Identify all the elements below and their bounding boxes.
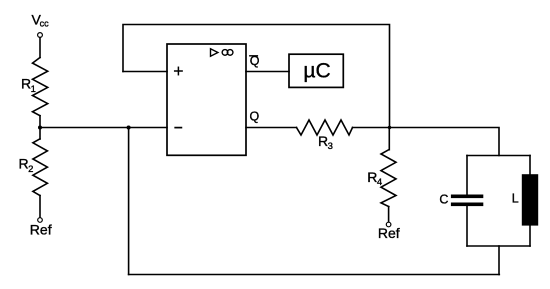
label C [439,193,448,207]
pin Qbar label [250,54,260,68]
wire junction down to bottom rail [128,128,130,275]
label R1 [21,76,36,96]
wire Vcc to R1 [39,38,41,58]
node bottom-rail junction [127,126,131,130]
svg-text:2: 2 [28,164,33,175]
svg-text:µC: µC [303,59,330,82]
resistor R3 [297,120,353,135]
svg-text:R: R [19,156,29,172]
svg-text:1: 1 [31,84,36,95]
pin + non-inverting input [175,67,182,74]
wire to non-inverting input [123,71,167,73]
svg-text:cc: cc [40,19,50,29]
svg-text:R: R [318,133,328,149]
wire tank right branch upper [529,156,531,175]
wire R2 to Ref [39,196,41,218]
resistor R2 [33,139,48,196]
node Ref terminal left [38,218,43,223]
wire node to tank top [390,128,500,156]
symbol infinity [222,50,233,56]
svg-text:Ref: Ref [30,222,52,238]
resistor R4 [381,150,396,207]
svg-text:Ref: Ref [378,225,400,241]
svg-text:C: C [439,193,448,207]
wire R4 to Ref [388,207,390,223]
pin - inverting input [175,127,181,129]
microcontroller U2 box [289,54,343,87]
svg-text:L: L [512,192,519,206]
label Ref right [378,225,400,241]
wire feedback top rail [123,25,390,128]
label uC [303,59,330,82]
label R2 [19,156,34,176]
node R3 R4 feedback junction [388,126,391,129]
label R3 [318,133,333,152]
wire tank left branch lower [466,206,468,246]
svg-text:4: 4 [377,177,382,188]
wire node to R4 [388,128,390,150]
svg-text:R: R [21,76,31,92]
capacitor C [451,195,483,207]
label Ref left [30,222,52,238]
wire divider to inverting input [40,127,167,129]
label R4 [367,169,382,188]
svg-text:Q: Q [250,110,260,124]
wire tank bottom to bottom rail [498,246,500,275]
symbol infinite-gain triangle [211,49,218,56]
wire tank left branch upper [466,156,468,195]
resistor R1 [33,58,48,116]
wire Q to R3 [246,127,297,129]
wire R1 to node [39,116,41,139]
pin Q label [250,110,260,124]
wire R3 to node [353,127,390,129]
wire tank bottom rail [467,245,530,247]
node Ref terminal right [386,222,391,227]
node divider junction [38,126,42,130]
wire tank top rail [467,155,530,157]
op-amp U1 comparator box [167,44,246,155]
label L [512,192,519,206]
wire bottom rail [129,274,500,276]
inductor L [522,174,538,225]
node Vcc terminal [38,33,43,38]
wire Qbar to microcontroller [246,71,289,73]
label Vcc [32,11,50,28]
svg-text:3: 3 [328,141,333,152]
wire tank right branch lower [529,226,531,246]
